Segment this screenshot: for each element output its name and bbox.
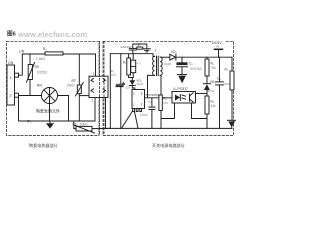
- dashed enclosure: heater section: [7, 41, 100, 135]
- node bar: [129, 77, 134, 79]
- transformer T: [153, 49, 163, 76]
- svg-text:2CW: 2CW: [208, 89, 215, 93]
- node L wire to top rail: [19, 54, 23, 75]
- capacitor C3 output filter: [177, 57, 203, 83]
- svg-text:DC5V: DC5V: [212, 41, 222, 45]
- diode VD2 output rectifier: [164, 50, 178, 66]
- wire RT node to CN2: [79, 95, 89, 97]
- capacitor C6 IC bypass: [148, 98, 155, 129]
- fuse F1: [137, 44, 143, 50]
- wire IC source legs: [122, 112, 133, 129]
- resistor R6: [205, 96, 216, 128]
- capacitor C1 on mains line: [111, 54, 131, 129]
- svg-text:U₁ PC817: U₁ PC817: [173, 87, 188, 91]
- svg-text:104: 104: [111, 73, 116, 77]
- zener VD3: [203, 76, 216, 96]
- earth arrow under heater: [46, 121, 54, 129]
- svg-text:图6: 图6: [7, 30, 16, 38]
- wire CN2 lower pin drop: [105, 98, 107, 129]
- svg-text:R₇: R₇: [225, 68, 228, 72]
- resistor R2: [123, 54, 131, 78]
- thermistor RT2: [73, 121, 110, 133]
- wire CN2 bottom-left pin to bottom rail: [94, 98, 96, 122]
- svg-text:1: 1: [93, 72, 95, 76]
- svg-text:RN: RN: [37, 84, 42, 88]
- wire mains line vertical: [109, 54, 111, 129]
- resistor R5: [205, 57, 216, 76]
- svg-text:RV: RV: [35, 65, 40, 69]
- wire top rail left: [22, 53, 45, 55]
- svg-text:75k: 75k: [211, 66, 217, 70]
- svg-text:VD₂: VD₂: [171, 50, 178, 54]
- terminal DC5V: [212, 39, 226, 57]
- svg-text:43k: 43k: [211, 104, 217, 108]
- wire circle bottom to bottom rail: [49, 104, 51, 122]
- wire output rail: [176, 56, 232, 58]
- svg-text:THX203H: THX203H: [145, 93, 159, 97]
- svg-text:1u50V: 1u50V: [140, 113, 148, 117]
- capacitor CY line filter: [121, 44, 147, 54]
- resistor R4: [159, 75, 168, 128]
- svg-text:RT₂: RT₂: [73, 123, 79, 127]
- svg-text:开关电源电路部分: 开关电源电路部分: [152, 142, 185, 148]
- wire primary bottom to IC: [148, 75, 155, 97]
- svg-text:4148: 4148: [164, 62, 171, 66]
- svg-text:T: T: [155, 49, 157, 53]
- svg-text:L/N: L/N: [19, 50, 25, 54]
- svg-text:4007: 4007: [136, 82, 143, 86]
- svg-text:陶瓷发热元件: 陶瓷发热元件: [36, 107, 60, 113]
- svg-text:陶瓷电热器部分: 陶瓷电热器部分: [29, 142, 58, 148]
- svg-text:4.7: 4.7: [137, 62, 141, 66]
- capacitor C5 bulk filter: [131, 54, 141, 78]
- svg-text:CN: CN: [8, 61, 14, 65]
- IC U2 switcher: [132, 90, 159, 118]
- dashed enclosure: switching power supply section: [103, 41, 234, 135]
- bottom rail left: [19, 96, 96, 122]
- svg-text:RL: RL: [27, 119, 31, 123]
- earth ground: [143, 49, 150, 52]
- wire optocoupler collector to zener column: [196, 93, 208, 95]
- svg-text:50kΩ: 50kΩ: [67, 84, 75, 88]
- connector CN2 (board link): [89, 41, 108, 135]
- wire heater line: [19, 95, 42, 97]
- wire optocoupler emitter: [192, 103, 208, 119]
- resistor R1: [45, 52, 63, 55]
- svg-text:5V: 5V: [216, 45, 219, 48]
- wire secondary top to diode: [160, 56, 169, 58]
- capacitor C4: [216, 57, 233, 128]
- heater lamp RN (ceramic heater): [36, 84, 60, 114]
- diode VD1: [129, 78, 143, 90]
- svg-text:1.8kΩ: 1.8kΩ: [36, 57, 45, 61]
- thermistor RT: [67, 54, 83, 121]
- wire top rail of psu: [110, 54, 154, 57]
- svg-text:50kΩ: 50kΩ: [80, 123, 88, 127]
- svg-text:470/16V: 470/16V: [190, 67, 203, 71]
- svg-text:7k5: 7k5: [163, 101, 168, 105]
- optocoupler U1: [172, 87, 196, 103]
- wire top rail right: [63, 54, 96, 76]
- svg-text:10D561: 10D561: [37, 71, 48, 75]
- connector CN1: [7, 61, 19, 105]
- svg-text:RT: RT: [72, 79, 76, 83]
- svg-text:J: J: [91, 99, 93, 103]
- svg-text:www.elecfans.com: www.elecfans.com: [17, 30, 87, 39]
- varistor RV: [27, 54, 48, 96]
- wire psu bottom rail: [106, 127, 232, 129]
- wire IC drain to optocoupler: [145, 97, 173, 99]
- wire optocoupler LED return: [161, 103, 175, 119]
- wire heater right to bottom rail: [58, 96, 69, 122]
- resistor R7 with ground: [225, 57, 236, 128]
